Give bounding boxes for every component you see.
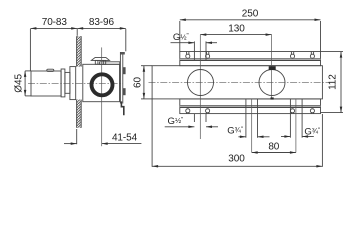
dimension 83-96 bbox=[77, 17, 126, 51]
svg-text:130: 130 bbox=[228, 24, 245, 35]
G3/4 outlet right bbox=[290, 99, 302, 153]
left port centerline bbox=[199, 35, 201, 139]
svg-text:41-54: 41-54 bbox=[112, 133, 138, 144]
G1/2 inlet top bbox=[194, 41, 206, 60]
svg-text:83-96: 83-96 bbox=[89, 17, 115, 28]
dimension Ø45 bbox=[14, 71, 32, 96]
dimension 112 bbox=[321, 52, 344, 113]
keyhole slots bottom bbox=[186, 109, 315, 114]
dimension 80 bbox=[252, 141, 296, 153]
escutcheon flange bbox=[70, 67, 76, 100]
dimension 250 bbox=[180, 9, 321, 52]
right handle circle bbox=[259, 70, 285, 96]
wall hatch upper bbox=[77, 36, 82, 66]
handle cylinder bbox=[31, 71, 61, 96]
handle cap ring bbox=[61, 69, 65, 97]
G3/4 outlet left bbox=[246, 99, 258, 153]
dimension 60 bbox=[133, 66, 153, 99]
right port centerline bbox=[271, 35, 273, 98]
handle button bbox=[47, 69, 54, 71]
valve body bbox=[83, 64, 120, 101]
handle centerline bbox=[28, 83, 123, 85]
label G3/4 right bbox=[281, 126, 320, 137]
bar body bbox=[152, 66, 322, 99]
handle stem bbox=[65, 72, 70, 93]
dimension 41-54 bbox=[64, 129, 141, 145]
svg-text:80: 80 bbox=[268, 141, 279, 152]
body top step bbox=[100, 62, 120, 65]
svg-text:112: 112 bbox=[328, 74, 339, 90]
bracket foot bbox=[121, 101, 123, 115]
dimension 130 bbox=[200, 24, 271, 36]
label G3/4 left bbox=[227, 125, 269, 138]
cartridge ring bbox=[92, 74, 113, 95]
mounting bracket bbox=[120, 52, 125, 104]
keyhole slots top bbox=[186, 52, 315, 59]
bottom rail bbox=[180, 99, 321, 114]
right circle bottom tab bbox=[271, 97, 274, 99]
dimension 300 bbox=[152, 99, 322, 168]
top rail bbox=[180, 52, 321, 66]
right circle top tab bbox=[269, 66, 276, 70]
left handle circle bbox=[188, 70, 214, 96]
svg-text:60: 60 bbox=[133, 77, 144, 88]
svg-text:70-83: 70-83 bbox=[42, 17, 68, 28]
wall hatch lower bbox=[77, 100, 82, 128]
svg-text:250: 250 bbox=[242, 9, 259, 20]
dimension 70-83 bbox=[30, 17, 77, 70]
label G1/2 top bbox=[171, 32, 218, 44]
G1/2 outlet bottom bbox=[194, 114, 206, 122]
top screw bbox=[91, 57, 109, 64]
label G1/2 bottom bbox=[165, 116, 218, 128]
svg-text:300: 300 bbox=[228, 154, 245, 165]
front centerline horizontal bbox=[149, 82, 331, 84]
body centerline vertical bbox=[101, 47, 103, 146]
svg-text:Ø45: Ø45 bbox=[14, 74, 25, 93]
